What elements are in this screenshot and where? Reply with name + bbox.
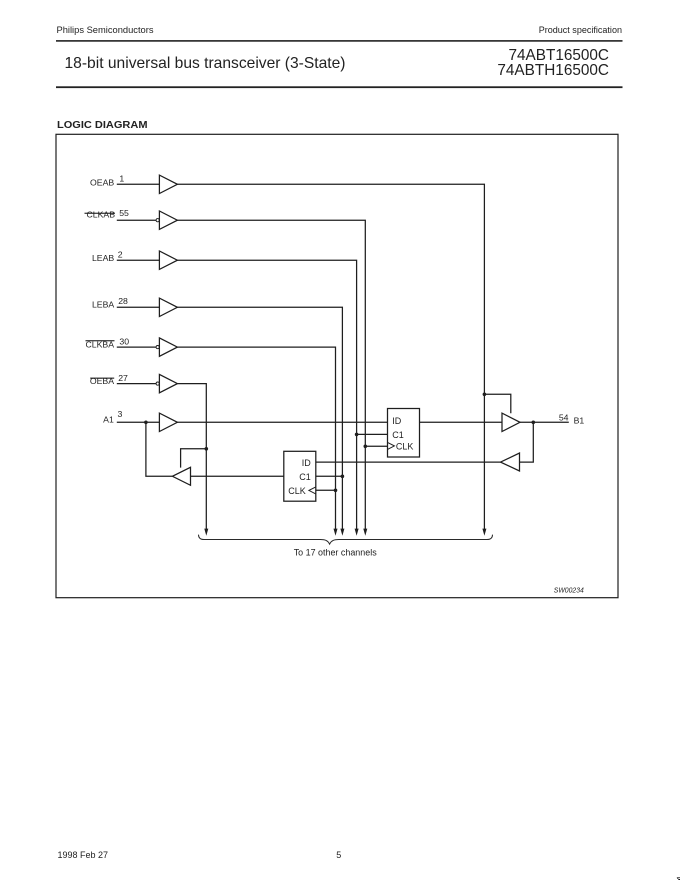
wire OEBA output to bus [177, 384, 206, 530]
junction CLKBA CLK [334, 489, 338, 493]
buffer CLKAB [159, 211, 177, 229]
wire A output to A1 node [146, 422, 173, 476]
wire OEAB enable branch [484, 394, 510, 413]
svg-text:OEAB: OEAB [90, 177, 114, 187]
wire B1 output [520, 421, 569, 423]
svg-text:CLK: CLK [288, 486, 306, 496]
junction LEAB C1 [355, 433, 359, 437]
buffer B output (3-state, right pointing) [502, 413, 520, 431]
svg-text:LOGIC DIAGRAM: LOGIC DIAGRAM [57, 120, 148, 131]
svg-text:54: 54 [559, 412, 569, 422]
wire A1 buffer output to right FF [177, 421, 387, 423]
svg-text:74ABTH16500C: 74ABTH16500C [497, 62, 609, 79]
svg-text:C1: C1 [299, 472, 311, 482]
svg-text:28: 28 [118, 296, 128, 306]
brace to 17 other channels [199, 535, 493, 545]
wire LEAB input [117, 259, 160, 261]
wire right FF C1 from LEAB [357, 433, 388, 435]
wire left FF C1 from LEBA [316, 475, 343, 477]
svg-text:1998 Feb 27: 1998 Feb 27 [58, 850, 109, 860]
svg-text:CLKAB: CLKAB [87, 210, 116, 220]
corner mark bottom right [677, 877, 680, 880]
wire CLKBA output to bus [177, 347, 335, 529]
junction LEBA C1 [341, 475, 345, 479]
svg-text:Product specification: Product specification [539, 25, 622, 36]
header rule top [56, 40, 623, 42]
arrow OEBA bus [204, 529, 208, 536]
buffer A output (3-state, left pointing) [172, 467, 190, 485]
overline OEBA [90, 378, 114, 379]
svg-text:LEBA: LEBA [92, 300, 114, 310]
svg-text:30: 30 [119, 337, 129, 347]
wire right FF output to B buffer [420, 421, 503, 423]
arrow LEAB bus [355, 529, 359, 536]
svg-text:3: 3 [118, 409, 123, 419]
wire CLKBA input [117, 346, 156, 348]
svg-text:B1: B1 [574, 415, 585, 425]
svg-text:C1: C1 [392, 430, 404, 440]
wire LEAB output to bus [177, 260, 356, 529]
wire CLKAB input [117, 219, 156, 221]
junction B1 [532, 421, 536, 425]
wire right FF CLK from CLKAB [365, 445, 387, 447]
svg-text:27: 27 [118, 373, 128, 383]
svg-text:55: 55 [119, 208, 129, 218]
svg-text:Philips Semiconductors: Philips Semiconductors [57, 25, 154, 36]
svg-text:A1: A1 [103, 414, 114, 424]
bubble CLKBA [156, 346, 159, 349]
diagram frame [56, 134, 618, 597]
buffer A1 input [159, 413, 177, 431]
svg-text:CLK: CLK [396, 441, 414, 451]
flip-flop right (A to B latch) [388, 409, 420, 458]
svg-text:18-bit universal bus transceiv: 18-bit universal bus transceiver (3-Stat… [65, 55, 346, 72]
wire OEAB input [117, 183, 160, 185]
junction OEBA enable [205, 447, 209, 451]
junction CLKAB CLK [364, 445, 368, 449]
buffer B input (left pointing) [501, 453, 520, 471]
clock wedge left FF [309, 487, 316, 494]
buffer LEAB [159, 251, 177, 269]
arrow LEBA bus [340, 529, 344, 536]
arrow CLKAB bus [363, 529, 367, 536]
clock wedge right FF [388, 442, 395, 449]
overline CLKAB [85, 213, 116, 214]
arrow CLKBA bus [334, 529, 338, 536]
wire LEBA output to bus [177, 307, 342, 529]
wire left FF ID input from B buffer [316, 461, 501, 463]
wire A1 input [117, 421, 160, 423]
junction OEAB enable [483, 393, 487, 397]
wire OEAB output to bus [177, 184, 484, 529]
svg-text:To 17 other channels: To 17 other channels [294, 547, 377, 558]
svg-text:1: 1 [119, 174, 124, 184]
buffer CLKBA [159, 338, 177, 356]
svg-text:SW00234: SW00234 [554, 586, 584, 595]
bubble CLKAB [156, 219, 159, 222]
svg-text:2: 2 [118, 249, 123, 259]
bubble OEBA [156, 382, 159, 385]
svg-text:LEAB: LEAB [92, 253, 114, 263]
flip-flop left (B to A latch) [284, 451, 316, 501]
svg-text:5: 5 [336, 850, 341, 860]
buffer LEBA [159, 298, 177, 316]
buffer OEBA [159, 374, 177, 392]
arrow OEAB bus [482, 529, 486, 536]
wire OEBA enable branch [181, 449, 207, 468]
wire OEBA input [117, 383, 156, 385]
wire CLKAB output to bus [177, 220, 365, 529]
wire B1 to B input buffer [520, 422, 534, 462]
svg-text:ID: ID [302, 458, 312, 468]
header rule bottom [56, 86, 623, 88]
svg-text:ID: ID [392, 416, 402, 426]
junction A1 [144, 421, 148, 425]
wire LEBA input [117, 306, 160, 308]
overline CLKBA [86, 340, 115, 341]
wire left FF CLK from CLKBA [316, 489, 336, 491]
wire left FF output to A buffer [191, 475, 284, 477]
buffer OEAB [159, 175, 177, 193]
